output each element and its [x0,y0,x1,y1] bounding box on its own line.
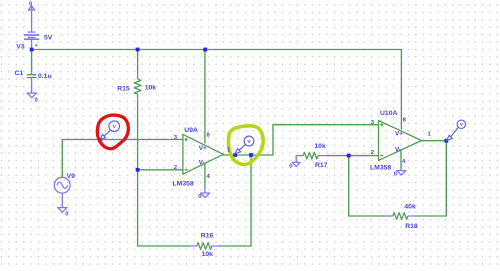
svg-text:V9: V9 [67,173,76,180]
svg-text:U10A: U10A [380,110,397,117]
svg-text:V3: V3 [16,43,25,50]
svg-text:5V: 5V [44,35,53,42]
svg-text:V-: V- [199,160,205,167]
svg-text:10k: 10k [145,85,157,92]
svg-text:R17: R17 [315,162,328,169]
svg-text:V+: V+ [199,145,207,152]
svg-text:LM358: LM358 [173,181,194,188]
svg-text:R16: R16 [201,233,214,240]
svg-text:V-: V- [395,147,401,154]
svg-text:C1: C1 [15,70,24,77]
svg-text:LM358: LM358 [370,164,391,171]
svg-text:V+: V+ [395,130,403,137]
svg-text:10k: 10k [202,251,214,258]
svg-text:R18: R18 [405,223,418,230]
svg-text:0.1u: 0.1u [38,73,52,80]
svg-text:10k: 10k [314,143,326,150]
svg-text:U9A: U9A [184,127,198,134]
svg-text:40k: 40k [404,204,416,211]
svg-text:R15: R15 [117,86,130,93]
